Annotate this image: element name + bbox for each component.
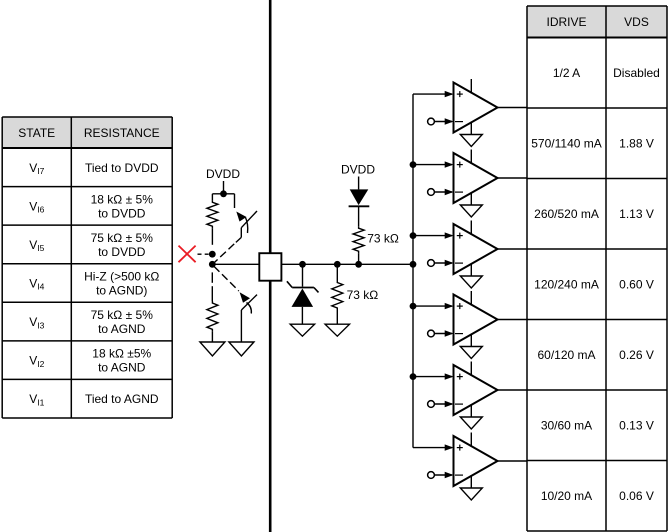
wire: U2 output <box>498 177 528 179</box>
node: pull-up junction <box>355 261 362 268</box>
wire to pull-up resistor <box>211 194 213 201</box>
wire: comparator input bus <box>412 94 414 448</box>
wire: U3 - input <box>434 260 453 266</box>
wire: U4 + input <box>413 303 454 309</box>
node: bus tap U3 <box>410 232 417 239</box>
pin (package terminal box) <box>259 253 281 281</box>
comparator U6 <box>454 433 498 487</box>
svg-text:0.60 V: 0.60 V <box>619 278 654 292</box>
wire: U2 ground lead <box>470 192 472 205</box>
reference input circle U4 <box>428 330 435 337</box>
wire: U5 ground lead <box>470 404 472 417</box>
node: zener junction <box>299 261 306 268</box>
wire: U1 - input <box>434 118 453 124</box>
wire: U5 + input <box>413 373 454 379</box>
resistor: pull-down to AGND <box>207 301 218 331</box>
wire 73 kOhm pull-down to ground <box>336 310 338 324</box>
wire: U4 - input <box>434 330 453 336</box>
svg-text:Hi-Z (>500 kΩ: Hi-Z (>500 kΩ <box>84 269 159 283</box>
comparator U5 <box>454 362 498 416</box>
svg-text:1/2 A: 1/2 A <box>553 66 580 80</box>
node: DVDD branch junction <box>220 190 227 197</box>
ground (U4) <box>460 347 482 359</box>
svg-text:Tied to DVDD: Tied to DVDD <box>85 161 159 175</box>
wire: U5 output <box>498 389 528 391</box>
svg-text:VDS: VDS <box>624 15 649 29</box>
wire: main to 73 kOhm pull-down <box>336 264 338 280</box>
svg-text:1.88 V: 1.88 V <box>619 137 654 151</box>
svg-text:DVDD: DVDD <box>206 167 240 181</box>
label 73 kΩ (pull-up) <box>367 232 399 246</box>
svg-text:0.26 V: 0.26 V <box>619 348 654 362</box>
node: bus tap U4 <box>410 303 417 310</box>
svg-text:60/120 mA: 60/120 mA <box>537 348 595 362</box>
resistor 73 kΩ (pull-down) <box>332 281 343 311</box>
ground (below zener) <box>290 324 314 336</box>
reference input circle U2 <box>428 189 435 196</box>
svg-text:Tied to AGND: Tied to AGND <box>85 392 159 406</box>
table: pin STATE / RESISTANCE <box>2 117 172 418</box>
reference input circle U5 <box>428 401 435 408</box>
svg-text:10/20 mA: 10/20 mA <box>541 489 592 503</box>
ground (below 73 kOhm pull-down) <box>325 324 349 336</box>
wire pull-up resistor to node A <box>211 228 213 245</box>
wire: dashed from red X to node A <box>198 253 210 255</box>
wire: U6 output <box>498 460 528 462</box>
wire: U4 output <box>498 319 528 321</box>
wire: U6 + input <box>413 444 454 450</box>
node: bus tap U5 <box>410 373 417 380</box>
wire: main to zener <box>302 264 304 286</box>
wire: dashed pin node to pull-down switch <box>214 266 239 291</box>
svg-text:30/60 mA: 30/60 mA <box>541 419 592 433</box>
svg-text:to AGND: to AGND <box>98 361 146 375</box>
svg-text:to AGND: to AGND <box>98 322 146 336</box>
node B (pin node) <box>209 261 216 268</box>
ground (U1) <box>460 135 482 147</box>
ground (below pull-down resistor) <box>200 342 225 356</box>
svg-text:DVDD: DVDD <box>341 163 375 177</box>
wire: pin to comparator bus <box>281 263 413 265</box>
svg-text:STATE: STATE <box>18 126 55 140</box>
wire: U3 + input <box>413 232 454 238</box>
svg-text:18 kΩ ± 5%: 18 kΩ ± 5% <box>91 192 154 206</box>
svg-text:0.06 V: 0.06 V <box>619 489 654 503</box>
zener diode (ESD clamp) <box>287 281 319 307</box>
svg-text:260/520 mA: 260/520 mA <box>534 207 599 221</box>
wire to pull-up switch terminal <box>234 194 236 208</box>
svg-text:75 kΩ ± 5%: 75 kΩ ± 5% <box>91 231 154 245</box>
wire: U6 ground lead <box>470 475 472 488</box>
comparator U2 <box>454 150 498 204</box>
svg-text:73 kΩ: 73 kΩ <box>347 288 379 302</box>
node A (pull-up / X node) <box>209 251 216 258</box>
svg-text:to DVDD: to DVDD <box>98 245 146 259</box>
switch: pull-up switch (to DVDD) <box>236 211 257 242</box>
reference input circle U1 <box>428 118 435 125</box>
wire: U1 output <box>498 107 528 109</box>
node: pull-down junction <box>334 261 341 268</box>
wire pull-down resistor to ground <box>211 331 213 342</box>
svg-text:75 kΩ ± 5%: 75 kΩ ± 5% <box>91 308 154 322</box>
ground (U2) <box>460 205 482 217</box>
reference input circle U6 <box>428 472 435 479</box>
wire 73 kOhm to main wire <box>358 253 360 264</box>
svg-text:120/240 mA: 120/240 mA <box>534 278 599 292</box>
comparator U4 <box>454 291 498 345</box>
wire: dashed pull-up switch lead to pin node <box>215 244 235 262</box>
wire: pin node to package pin <box>212 263 259 265</box>
wire: U5 - input <box>434 401 453 407</box>
ground (U6) <box>460 488 482 500</box>
wire zener to ground <box>301 307 303 324</box>
wire: U3 ground lead <box>470 263 472 276</box>
ground (below pull-down switch) <box>229 342 254 356</box>
svg-text:18 kΩ ±5%: 18 kΩ ±5% <box>92 347 151 361</box>
node: bus tap U2 <box>410 161 417 168</box>
resistor: pull-up to DVDD <box>207 200 218 228</box>
wire: U4 ground lead <box>470 334 472 347</box>
reference input circle U3 <box>428 260 435 267</box>
svg-text:Disabled: Disabled <box>613 66 660 80</box>
svg-text:to AGND): to AGND) <box>96 284 147 298</box>
wire: U1 ground lead <box>470 122 472 135</box>
diode (from internal DVDD) <box>349 189 370 206</box>
wire: dashed pin node to pull-down resistor <box>211 272 213 301</box>
label 73 kΩ (pull-down) <box>347 288 379 302</box>
wire: U1 + input <box>413 91 454 97</box>
svg-text:RESISTANCE: RESISTANCE <box>84 126 160 140</box>
wire diode to 73 kOhm resistor <box>358 206 360 226</box>
table: IDRIVE / VDS <box>527 6 667 531</box>
switch: pull-down switch (to AGND) <box>240 292 257 342</box>
svg-text:570/1140 mA: 570/1140 mA <box>531 137 602 151</box>
comparator U1 <box>454 79 498 133</box>
svg-text:to DVDD: to DVDD <box>98 206 146 220</box>
device boundary line <box>269 0 272 532</box>
power DVDD (internal) <box>341 163 375 177</box>
ground (U5) <box>460 417 482 429</box>
ground (U3) <box>460 276 482 288</box>
wire: U2 - input <box>434 189 453 195</box>
svg-text:0.13 V: 0.13 V <box>619 419 654 433</box>
svg-text:1.13 V: 1.13 V <box>619 207 654 221</box>
wire: U2 + input <box>413 161 454 167</box>
comparator U3 <box>454 221 498 275</box>
svg-text:IDRIVE: IDRIVE <box>546 15 586 29</box>
wire DVDD to junction <box>223 181 225 194</box>
node: bus junction <box>410 261 417 268</box>
wire: U6 - input <box>434 472 453 478</box>
wire: U3 output <box>498 248 528 250</box>
svg-text:73 kΩ: 73 kΩ <box>367 232 399 246</box>
power DVDD (left) <box>206 167 240 181</box>
resistor 73 kΩ (pull-up) <box>353 226 364 253</box>
red X marker (disconnected) <box>179 246 196 263</box>
wire DVDD to diode <box>358 177 360 190</box>
wire DVDD junction horizontal <box>212 193 234 195</box>
